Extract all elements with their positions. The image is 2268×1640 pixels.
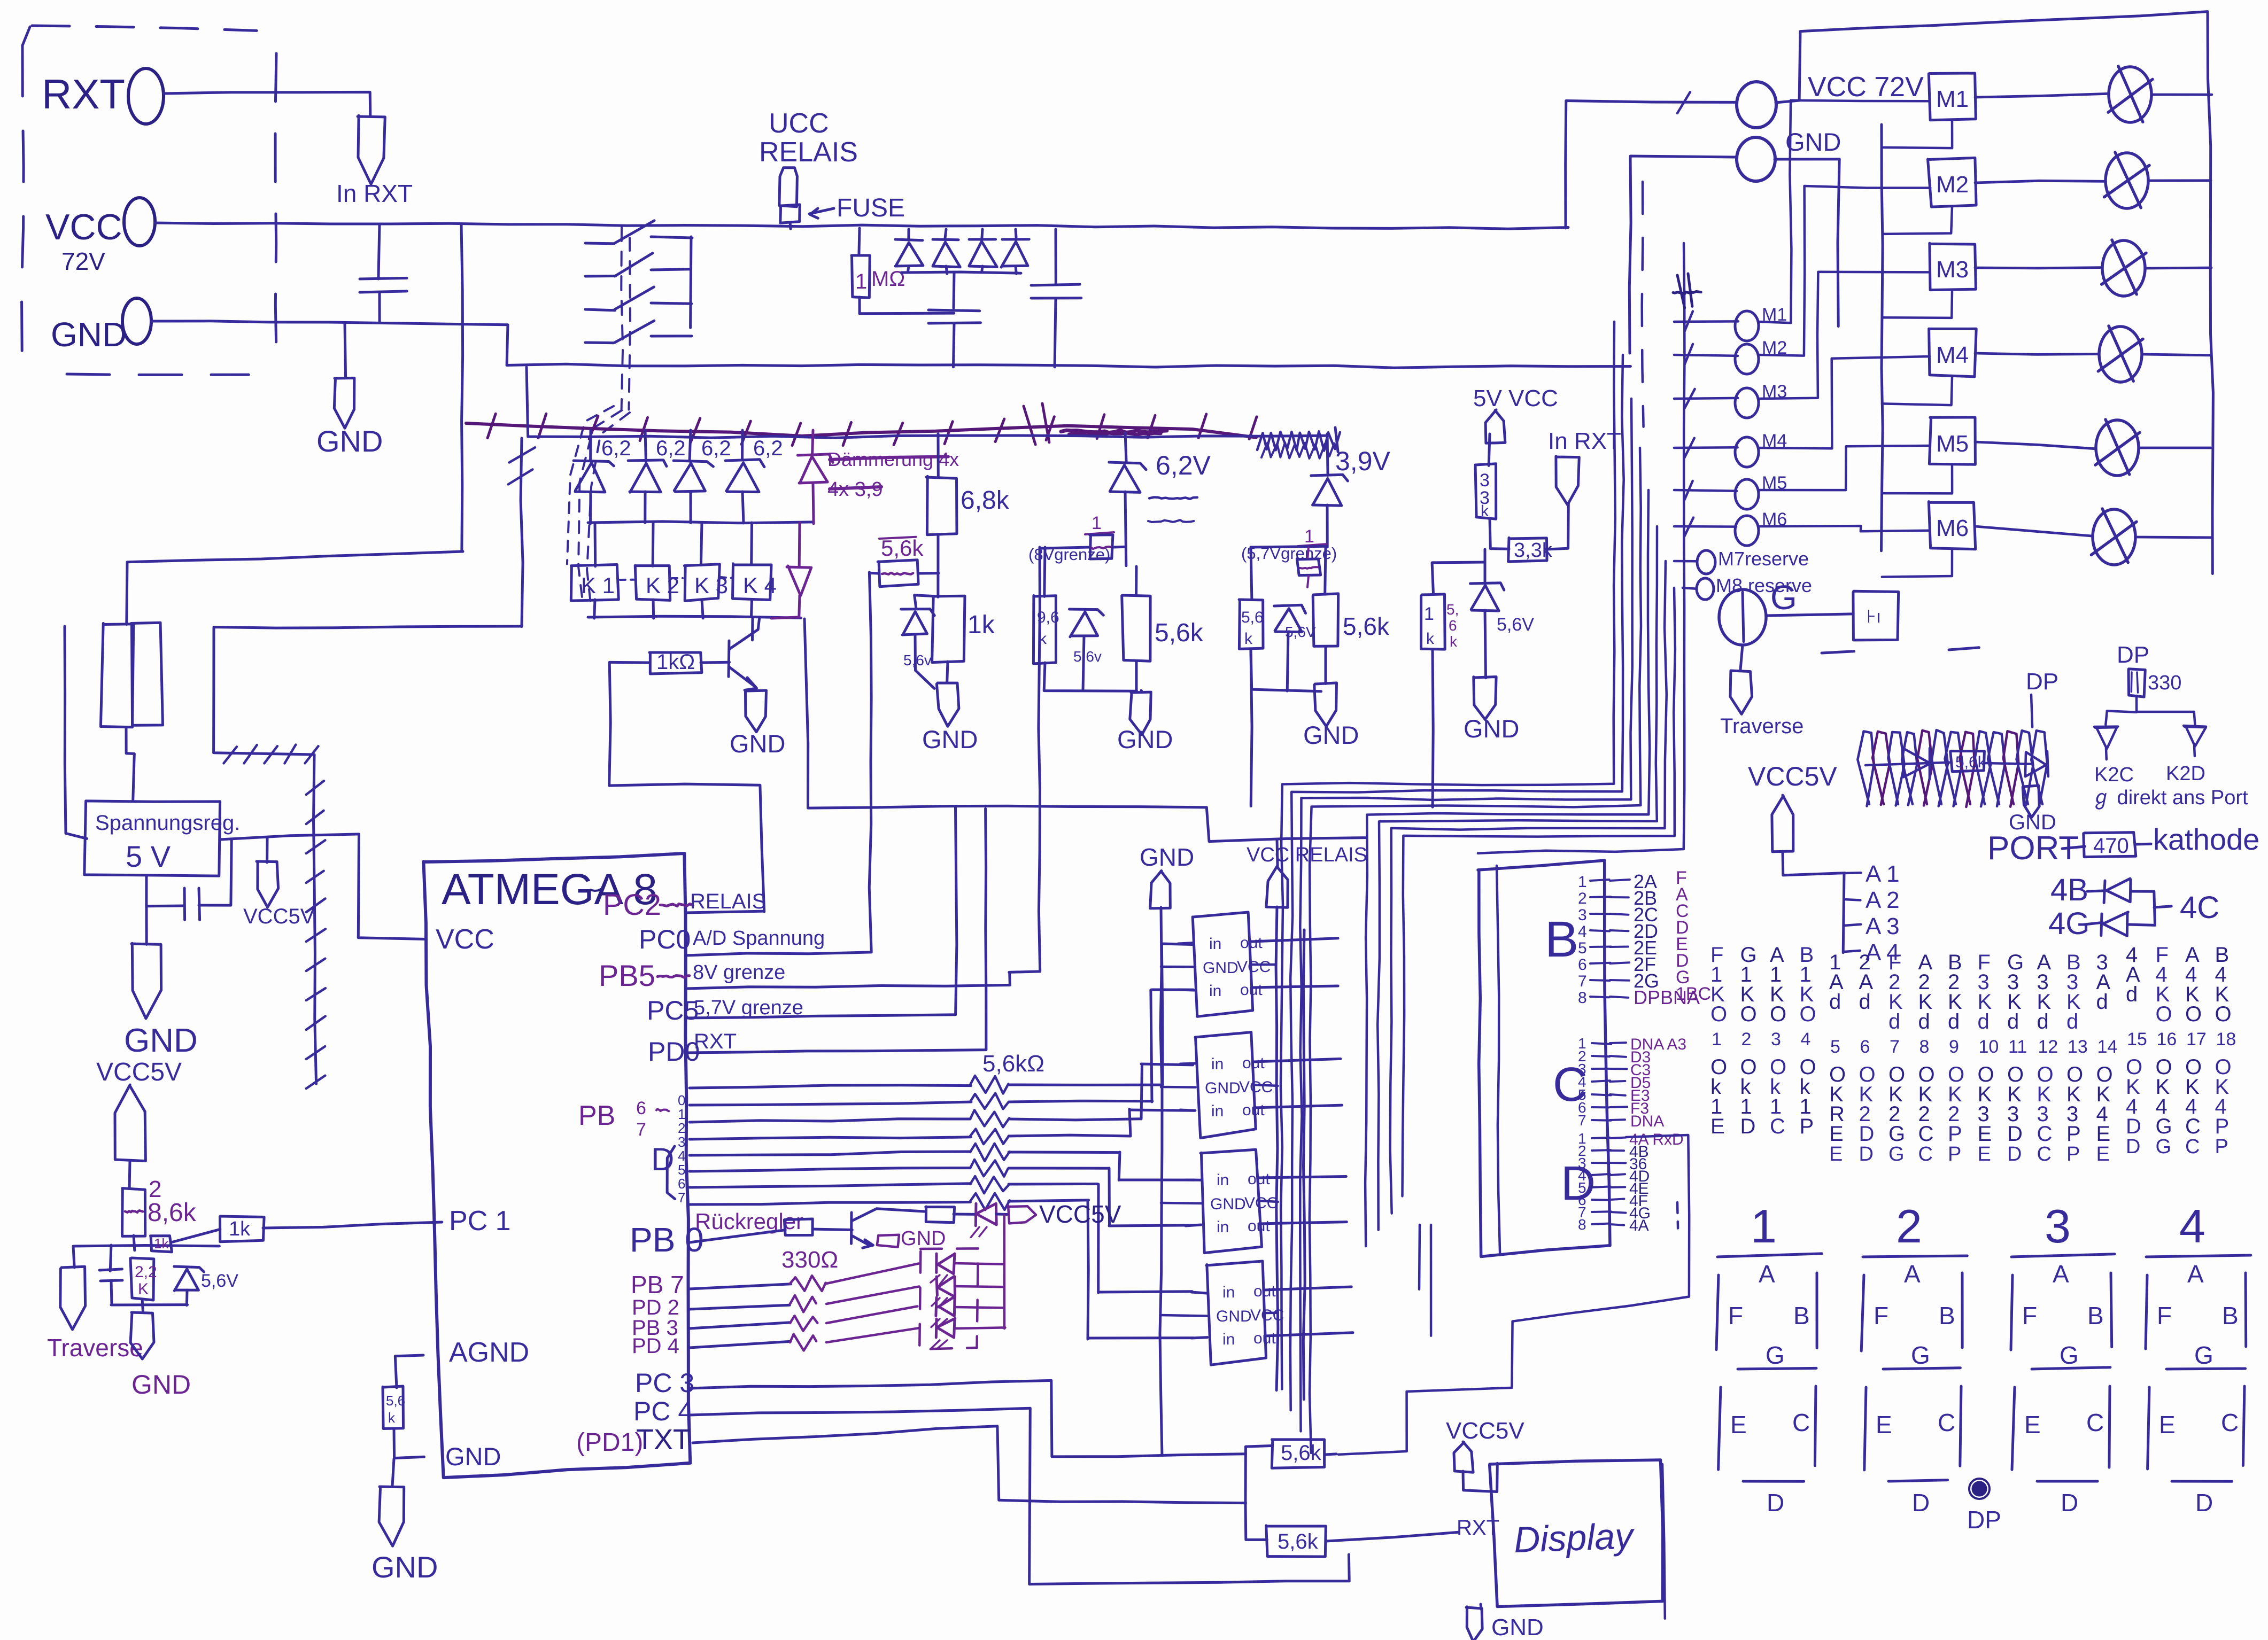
svg-text:C: C xyxy=(1770,1115,1785,1138)
svg-text:GND: GND xyxy=(730,729,785,758)
relay contact S2 xyxy=(585,275,616,278)
wire TXT to display xyxy=(693,1426,1246,1503)
wire bundle line 6 xyxy=(1377,526,1657,1230)
zener row bottom bus xyxy=(588,522,813,523)
resistor R 5,6k display #1 xyxy=(1245,1442,1273,1455)
svg-text:⊦ı: ⊦ı xyxy=(1867,607,1881,627)
diode D2 xyxy=(945,229,946,238)
svg-text:d: d xyxy=(1948,1010,1960,1033)
svg-text:Display: Display xyxy=(1513,1515,1636,1560)
svg-text:FUSE: FUSE xyxy=(837,194,905,222)
wire RXD down xyxy=(1338,1135,1689,1455)
resistor R330-1 + wire xyxy=(690,1284,791,1289)
svg-text:4C: 4C xyxy=(2180,890,2219,925)
svg-text:470: 470 xyxy=(2093,834,2129,858)
svg-text:d: d xyxy=(1829,990,1841,1014)
LED D10 xyxy=(936,1297,936,1316)
wire M4 circle to box xyxy=(1759,356,1930,448)
relay K4 xyxy=(750,523,753,565)
resistor R 9,6k xyxy=(1033,596,1056,664)
wire bundle line 5 xyxy=(1365,490,1650,1246)
svg-text:in: in xyxy=(1217,1171,1229,1189)
svg-text:G: G xyxy=(1770,578,1797,617)
ground display xyxy=(1481,1604,1481,1610)
svg-text:5,6k: 5,6k xyxy=(1955,753,1986,771)
svg-text:O: O xyxy=(2185,1002,2202,1026)
svg-text:k: k xyxy=(1039,630,1047,648)
svg-text:VCC5V: VCC5V xyxy=(243,905,315,928)
svg-text:DP: DP xyxy=(2117,642,2149,668)
wire PB/D bus line 0 with resistor R5,6k xyxy=(690,1085,971,1088)
wire M3 circle to box xyxy=(1759,272,1930,399)
svg-text:9: 9 xyxy=(1949,1037,1959,1057)
svg-text:D: D xyxy=(2007,1143,2022,1165)
svg-text:VCC: VCC xyxy=(1244,1194,1278,1212)
diode row bottom bus xyxy=(901,272,1021,273)
svg-text:4G: 4G xyxy=(2048,906,2089,941)
resistor R 1k tiny xyxy=(151,1236,172,1252)
svg-text:A 3: A 3 xyxy=(1866,913,1900,939)
lamp L1 xyxy=(2109,67,2151,122)
svg-text:k: k xyxy=(1450,633,1458,650)
wire opto U5 GND xyxy=(1161,1202,1202,1204)
svg-text:VCC 72V: VCC 72V xyxy=(1808,72,1924,103)
svg-text:d: d xyxy=(2007,1010,2019,1033)
svg-text:K 2: K 2 xyxy=(646,573,679,598)
relay K3 xyxy=(701,523,702,565)
svg-text:G: G xyxy=(1888,1143,1905,1165)
svg-text:PC2: PC2 xyxy=(603,888,661,921)
wire M4 box return xyxy=(1882,377,1952,405)
svg-text:PB 7: PB 7 xyxy=(631,1271,684,1299)
resistor R 1k/5,6k mid xyxy=(1432,562,1485,594)
svg-text:GND: GND xyxy=(1203,959,1239,977)
driver box M2 xyxy=(1928,158,1977,207)
svg-text:out: out xyxy=(1253,1330,1276,1347)
svg-text:O: O xyxy=(2156,1002,2172,1026)
svg-text:VCC: VCC xyxy=(1239,1078,1273,1096)
zener ZD 5,6V left xyxy=(186,1250,188,1266)
svg-text:E: E xyxy=(1829,1122,1844,1146)
ground scribble cluster xyxy=(2023,786,2039,818)
wire PC4 long xyxy=(690,1408,1349,1584)
svg-text:330Ω: 330Ω xyxy=(781,1247,838,1273)
optocoupler U5 xyxy=(1201,1149,1262,1253)
svg-text:5,6v: 5,6v xyxy=(903,652,932,669)
svg-text:G: G xyxy=(1888,1122,1905,1146)
svg-text:1: 1 xyxy=(855,270,867,293)
resistor R 6,8k xyxy=(926,476,957,534)
svg-text:(PD1): (PD1) xyxy=(576,1428,643,1457)
svg-text:72V: 72V xyxy=(61,247,105,275)
svg-text:5,6V: 5,6V xyxy=(1497,615,1534,635)
svg-text:5,6V: 5,6V xyxy=(1285,624,1316,640)
svg-text:in: in xyxy=(1222,1331,1235,1348)
svg-text:E: E xyxy=(1978,1143,1991,1165)
svg-text:1kΩ: 1kΩ xyxy=(656,650,695,674)
svg-text:G: G xyxy=(2156,1136,2172,1158)
svg-text:PB5: PB5 xyxy=(599,959,655,992)
svg-text:D: D xyxy=(1859,1122,1875,1146)
svg-text:PC 1: PC 1 xyxy=(449,1206,511,1237)
svg-text:G: G xyxy=(2060,1341,2079,1369)
svg-text:GND: GND xyxy=(1205,1079,1241,1097)
transistor Q2 xyxy=(850,1212,853,1243)
svg-text:A: A xyxy=(1759,1260,1775,1288)
svg-text:in: in xyxy=(1209,982,1221,1000)
svg-text:C: C xyxy=(2185,1115,2201,1138)
svg-text:5,6kΩ: 5,6kΩ xyxy=(982,1051,1044,1077)
svg-text:in: in xyxy=(1222,1284,1235,1301)
svg-text:7: 7 xyxy=(1578,1112,1586,1129)
svg-text:GND: GND xyxy=(901,1227,946,1250)
svg-text:7: 7 xyxy=(1890,1037,1900,1057)
svg-text:4B: 4B xyxy=(2050,873,2088,907)
svg-text:K 4: K 4 xyxy=(743,573,777,598)
svg-text:VCC5V: VCC5V xyxy=(1748,761,1837,791)
ground 6.8k branch xyxy=(936,683,959,726)
diode D3 xyxy=(982,229,982,239)
svg-text:B: B xyxy=(1939,1302,1955,1330)
wire 5,7V junction xyxy=(1251,546,1326,547)
LED D8 xyxy=(935,1254,938,1273)
svg-text:E: E xyxy=(2159,1411,2176,1439)
svg-text:3: 3 xyxy=(2045,1200,2071,1253)
svg-text:d: d xyxy=(1978,1010,1990,1033)
wire nest ninth xyxy=(1478,243,1685,853)
svg-text:GND: GND xyxy=(922,725,978,753)
diode D5 (purple 4x) xyxy=(812,430,813,455)
svg-text:Traverse: Traverse xyxy=(1720,714,1803,738)
wire VCC72 riser xyxy=(1566,101,1737,229)
box right of G xyxy=(1766,614,1853,616)
diode scribble pair xyxy=(1902,748,1931,777)
svg-text:Spannungsreg.: Spannungsreg. xyxy=(95,811,240,835)
svg-text:5,6k: 5,6k xyxy=(1155,619,1204,647)
DP dot xyxy=(1973,1482,1986,1495)
svg-text:PD0: PD0 xyxy=(648,1037,700,1067)
dashed link down to K relays xyxy=(578,410,622,599)
svg-text:3: 3 xyxy=(1771,1029,1781,1050)
ground small Q2 xyxy=(876,1237,877,1240)
svg-text:VCC: VCC xyxy=(1250,1307,1284,1324)
svg-text:M3: M3 xyxy=(1936,257,1969,283)
wire PB/D bus line 4 with resistor R5,6k xyxy=(690,1152,971,1155)
svg-text:RXT: RXT xyxy=(42,71,125,118)
wire bundle line 7 xyxy=(1390,561,1667,1214)
svg-text:RELAIS: RELAIS xyxy=(690,890,766,913)
wire M3 box return xyxy=(1883,292,1953,318)
driver box M5 xyxy=(1929,417,1975,464)
svg-text:330: 330 xyxy=(2148,672,2181,694)
svg-text:out: out xyxy=(1240,934,1263,952)
svg-text:D: D xyxy=(1859,1143,1874,1165)
svg-text:A: A xyxy=(2053,1260,2069,1288)
wire PB/D bus line 7 with resistor R5,6k xyxy=(690,1202,971,1205)
wire bundle line 4 xyxy=(1310,448,1641,1453)
zener ZD 5,6V below xyxy=(1489,549,1490,585)
display module box xyxy=(1490,1460,1663,1607)
svg-text:E: E xyxy=(1730,1411,1747,1439)
svg-text:out: out xyxy=(1253,1283,1276,1300)
wire bundle line 1 xyxy=(1281,322,1615,1389)
svg-text:O: O xyxy=(2215,1002,2232,1026)
svg-text:6,2: 6,2 xyxy=(753,437,783,460)
svg-text:2: 2 xyxy=(1741,1029,1752,1050)
svg-text:GND: GND xyxy=(316,424,383,458)
dashes between K boxes xyxy=(620,579,634,581)
svg-text:A: A xyxy=(1904,1260,1921,1288)
dashed LED box xyxy=(919,1248,978,1349)
relay K1 xyxy=(594,523,597,566)
svg-text:in: in xyxy=(1211,1102,1224,1120)
svg-text:7: 7 xyxy=(678,1190,685,1206)
svg-text:VCC RELAIS: VCC RELAIS xyxy=(1247,844,1367,866)
wire M1 box return xyxy=(1882,121,1952,148)
connector pin GND circle xyxy=(122,298,151,344)
lamp L4 xyxy=(2099,327,2142,382)
svg-text:d: d xyxy=(2066,1010,2078,1033)
capacitor C regulator xyxy=(146,875,183,906)
blue scribble blob xyxy=(1673,291,1701,293)
svg-text:TXT: TXT xyxy=(636,1424,691,1456)
svg-text:F: F xyxy=(1728,1302,1743,1330)
wire mid resistor down xyxy=(1433,649,1433,807)
svg-text:B: B xyxy=(1793,1302,1810,1330)
LED D9 xyxy=(936,1277,937,1295)
wire opto U6 GND xyxy=(1161,1315,1209,1316)
svg-text:K 1: K 1 xyxy=(581,573,615,598)
zener diode ZD3 6,2V xyxy=(690,430,691,461)
svg-text:E: E xyxy=(2096,1143,2110,1165)
label 4C xyxy=(2154,906,2171,907)
svg-text:7: 7 xyxy=(1578,973,1587,990)
wire opto U4 GND xyxy=(1161,1086,1196,1089)
svg-text:K: K xyxy=(138,1280,149,1298)
svg-text:GND: GND xyxy=(1117,725,1173,753)
svg-text:PC5: PC5 xyxy=(647,996,699,1025)
svg-text:M4: M4 xyxy=(1936,342,1969,368)
relay mechanical dashed link xyxy=(621,227,623,410)
ground symbol below C1 xyxy=(345,323,346,378)
svg-text:GND: GND xyxy=(371,1550,438,1584)
svg-text:in: in xyxy=(1217,1218,1229,1236)
svg-text:Rückregler: Rückregler xyxy=(695,1209,803,1234)
svg-text:2: 2 xyxy=(1896,1200,1922,1253)
wire bottom return xyxy=(1325,1553,1350,1554)
svg-text:8,6k: 8,6k xyxy=(148,1199,197,1227)
svg-text:In RXT: In RXT xyxy=(1548,428,1621,454)
resistor R 5,6k right xyxy=(1135,566,1137,595)
svg-text:5,6: 5,6 xyxy=(386,1393,405,1409)
svg-text:M7reserve: M7reserve xyxy=(1718,548,1809,570)
svg-text:4: 4 xyxy=(1578,923,1587,941)
driver box M4 xyxy=(1929,329,1977,377)
LED D7 xyxy=(974,1203,978,1226)
svg-text:D: D xyxy=(1912,1489,1930,1517)
svg-text:C: C xyxy=(2185,1136,2200,1158)
relay K2 xyxy=(652,523,655,566)
svg-text:O: O xyxy=(1740,1002,1757,1026)
driver box M3 xyxy=(1930,243,1976,290)
wire junction row xyxy=(73,1246,219,1247)
connector circle M3 xyxy=(1674,398,1738,399)
wire K bottom to transistor xyxy=(751,617,754,640)
wire bundle line 2 xyxy=(1290,355,1624,1410)
net arrow Traverse xyxy=(60,1266,86,1330)
svg-text:P: P xyxy=(2066,1122,2081,1146)
svg-text:2,2: 2,2 xyxy=(135,1263,157,1281)
svg-text:D: D xyxy=(2007,1122,2023,1146)
frame top and right rail xyxy=(1776,12,2213,574)
connector circle VCC 72V xyxy=(1737,82,1776,128)
svg-text:1: 1 xyxy=(1304,526,1314,547)
resistor PB0 R1 xyxy=(690,1230,785,1242)
K relay bottom bus xyxy=(588,616,801,618)
connector J2 B/C/D body xyxy=(1478,860,1610,1256)
svg-text:6: 6 xyxy=(1578,956,1587,974)
ground left xyxy=(130,1312,154,1359)
resistor R 33k xyxy=(1489,434,1490,465)
svg-text:K2D: K2D xyxy=(2166,763,2205,785)
svg-text:kathode: kathode xyxy=(2153,822,2259,856)
wire opto U3 GND xyxy=(1161,966,1195,968)
svg-text:5,6k: 5,6k xyxy=(1343,612,1390,640)
diode 4B xyxy=(2087,891,2104,891)
relay contact right bus xyxy=(691,237,691,328)
svg-text:M6: M6 xyxy=(1936,515,1969,541)
svg-text:GND: GND xyxy=(124,1022,198,1059)
connector pin VCC circle xyxy=(124,198,155,246)
wire screen/hatch path xyxy=(214,626,522,1084)
wire PB/D bus line 3 with resistor R5,6k xyxy=(690,1137,971,1139)
resistor R 1k to PC1 xyxy=(171,1229,220,1244)
svg-text:5,: 5, xyxy=(1446,601,1459,618)
svg-text:E: E xyxy=(1710,1115,1725,1138)
svg-text:E: E xyxy=(1978,1122,1992,1146)
svg-text:AGND: AGND xyxy=(449,1337,529,1368)
lamp L3 xyxy=(2102,240,2145,296)
driver box M1 xyxy=(1929,73,1976,120)
net arrow In RXT xyxy=(358,115,385,184)
resistor R 8,6k scribbled xyxy=(122,1188,145,1237)
svg-text:GND: GND xyxy=(131,1370,191,1400)
svg-text:E: E xyxy=(1829,1143,1843,1165)
connector J1 dashed outline xyxy=(32,26,257,30)
ground regulator xyxy=(144,905,145,945)
svg-text:6,2: 6,2 xyxy=(601,437,631,460)
zener ZD 5,6V mid xyxy=(1083,547,1085,609)
svg-text:GND: GND xyxy=(1140,843,1194,871)
svg-text:PC 3: PC 3 xyxy=(635,1368,694,1398)
svg-text:D: D xyxy=(1767,1489,1784,1517)
wire to In RXT xyxy=(1546,503,1568,549)
resistor R 5,6k left xyxy=(1239,600,1263,649)
svg-text:1k: 1k xyxy=(967,611,995,639)
svg-text:G: G xyxy=(2156,1115,2172,1138)
svg-text:k: k xyxy=(1244,630,1253,648)
IC U1 ATMEGA 8 body xyxy=(423,853,690,1478)
wire PB/D bus line 6 with resistor R5,6k xyxy=(690,1184,971,1187)
svg-text:4: 4 xyxy=(2179,1200,2205,1253)
svg-text:UCC: UCC xyxy=(769,108,829,139)
svg-text:E: E xyxy=(1876,1411,1892,1439)
svg-text:C: C xyxy=(1918,1122,1934,1146)
wire VCC branch down-left xyxy=(461,225,463,551)
svg-text:D: D xyxy=(2126,1136,2140,1158)
svg-text:1k: 1k xyxy=(229,1218,251,1240)
optocoupler U6 xyxy=(1206,1261,1266,1365)
scribble on wire bundle xyxy=(1061,430,1167,432)
svg-text:E: E xyxy=(2024,1411,2041,1439)
svg-text:GND: GND xyxy=(1303,721,1359,749)
svg-text:VCC5V: VCC5V xyxy=(96,1058,182,1086)
svg-text:G: G xyxy=(2194,1341,2213,1369)
wire regulator to ATMEGA VCC xyxy=(220,834,424,939)
svg-text:PD 4: PD 4 xyxy=(632,1334,679,1358)
vertical bus right of optos xyxy=(1303,930,1305,1400)
svg-text:B: B xyxy=(2087,1302,2104,1330)
wire RXT to In RXT arrow xyxy=(164,92,370,115)
svg-text:2: 2 xyxy=(1578,890,1587,907)
svg-text:5: 5 xyxy=(1578,939,1587,957)
svg-text:12: 12 xyxy=(2038,1037,2058,1057)
svg-text:1: 1 xyxy=(1751,1200,1777,1253)
svg-text:RELAIS: RELAIS xyxy=(759,137,858,168)
resistor R 1k-ohm base xyxy=(649,652,702,674)
svg-text:G: G xyxy=(1911,1341,1930,1369)
wire GND riser xyxy=(1629,156,1735,353)
lamp L2 xyxy=(2106,153,2148,208)
svg-text:D: D xyxy=(2061,1489,2078,1517)
svg-text:D: D xyxy=(1740,1115,1756,1138)
zener ZD 5,6V xyxy=(1288,588,1289,605)
svg-text:8: 8 xyxy=(1578,989,1587,1007)
svg-text:O: O xyxy=(1770,1002,1786,1026)
svg-text:8: 8 xyxy=(1919,1037,1930,1057)
zigzag scribble (blue) right of bundle xyxy=(1257,431,1340,450)
svg-text:8: 8 xyxy=(1578,1216,1586,1233)
svg-text:GND: GND xyxy=(1785,128,1841,156)
svg-text:6,8k: 6,8k xyxy=(961,486,1010,515)
svg-text:PB: PB xyxy=(578,1100,615,1131)
diode D4 xyxy=(1016,229,1016,237)
wire opto U6 VCC xyxy=(1265,1311,1278,1314)
junction to 9,6k xyxy=(1113,546,1124,549)
svg-text:E: E xyxy=(2096,1122,2111,1146)
svg-text:5,6: 5,6 xyxy=(1241,609,1264,626)
bracket A1-A4 xyxy=(1843,873,1844,953)
svg-text:MΩ: MΩ xyxy=(871,267,905,291)
svg-text:k: k xyxy=(1481,502,1489,520)
wire 6,2V branch xyxy=(1125,433,1126,462)
ground 33k branch xyxy=(1474,677,1496,720)
svg-text:1: 1 xyxy=(1578,873,1587,891)
svg-text:A 1: A 1 xyxy=(1866,861,1900,887)
svg-text:M5: M5 xyxy=(1936,431,1969,457)
svg-text:GND: GND xyxy=(445,1442,501,1471)
resistor PB0 R2 xyxy=(926,1207,955,1223)
svg-text:out: out xyxy=(1248,1217,1270,1235)
wire bundle line 3 xyxy=(1300,399,1632,1431)
resistor block left (two tall boxes) xyxy=(127,551,463,625)
svg-text:6,2V: 6,2V xyxy=(1156,450,1211,480)
relay contact S1 xyxy=(585,242,614,245)
dashed vertical near bundle xyxy=(1642,182,1644,427)
svg-text:17: 17 xyxy=(2186,1029,2207,1050)
wire M1 circle to box xyxy=(1759,100,1929,323)
capacitor C2 xyxy=(928,310,980,311)
